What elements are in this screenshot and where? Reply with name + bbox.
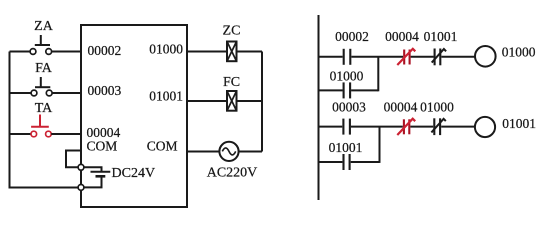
svg-text:ZC: ZC bbox=[223, 24, 241, 39]
svg-text:ZA: ZA bbox=[34, 19, 54, 34]
label 01001 (rung 1) bbox=[424, 29, 458, 44]
svg-text:01000: 01000 bbox=[502, 45, 536, 60]
label 01001 (PLC output) bbox=[149, 89, 183, 104]
pushbutton ZA bbox=[10, 19, 82, 54]
label 00002 (PLC input) bbox=[88, 43, 122, 58]
NO contact 01000 (branch 1) bbox=[344, 82, 351, 98]
branch 2 wire bbox=[319, 127, 380, 163]
svg-text:FC: FC bbox=[223, 75, 240, 90]
label COM (PLC input) bbox=[87, 138, 118, 153]
svg-text:01001: 01001 bbox=[424, 29, 458, 44]
wire FC to bus bbox=[237, 100, 263, 102]
svg-text:COM: COM bbox=[87, 138, 118, 153]
left rail wire bbox=[10, 52, 80, 188]
svg-text:01001: 01001 bbox=[149, 89, 183, 104]
NO contact 00003 bbox=[343, 119, 350, 135]
right bus wire bbox=[261, 52, 263, 152]
svg-text:00004: 00004 bbox=[385, 29, 419, 44]
svg-text:COM: COM bbox=[147, 138, 178, 153]
terminal node 2 bbox=[78, 185, 84, 191]
rung 2 wire bbox=[319, 126, 476, 128]
label 01000 (PLC output) bbox=[149, 42, 183, 57]
label 01001 (branch 2) bbox=[329, 140, 363, 155]
svg-text:00003: 00003 bbox=[332, 100, 366, 115]
wire ZC to bus bbox=[237, 51, 263, 53]
NC contact 00004 (rung 1, red) bbox=[397, 49, 415, 65]
NO contact 00002 bbox=[344, 49, 351, 65]
rung 1 wire bbox=[319, 56, 476, 58]
solenoid FC bbox=[223, 75, 240, 111]
label 01000 (rung 2) bbox=[420, 100, 454, 115]
solenoid ZC bbox=[223, 24, 241, 62]
coil 01000 bbox=[475, 45, 536, 67]
branch 1 wire bbox=[319, 57, 379, 92]
ladder left power rail bbox=[318, 15, 320, 200]
wire output 01001 bbox=[187, 100, 227, 102]
label COM (PLC output) bbox=[147, 138, 178, 153]
pushbutton TA (red) bbox=[10, 101, 82, 137]
label 00003 (PLC input) bbox=[88, 83, 122, 98]
svg-text:TA: TA bbox=[35, 101, 53, 116]
svg-text:00004: 00004 bbox=[384, 100, 418, 115]
coil 01001 bbox=[475, 116, 536, 137]
pushbutton FA bbox=[10, 61, 82, 96]
svg-text:00003: 00003 bbox=[88, 83, 122, 98]
AC source AC220V bbox=[207, 142, 258, 181]
svg-text:FA: FA bbox=[35, 61, 53, 76]
svg-text:01001: 01001 bbox=[329, 140, 363, 155]
battery DC24V bbox=[84, 166, 155, 187]
terminal node 1 bbox=[78, 164, 84, 170]
svg-text:AC220V: AC220V bbox=[207, 166, 258, 181]
NO contact 01001 (branch 2) bbox=[344, 154, 350, 170]
wire output 01000 bbox=[187, 51, 227, 53]
NC contact 00004 (rung 2, red) bbox=[397, 119, 415, 135]
NC contact 01000 (rung 2) bbox=[431, 118, 445, 135]
label 01000 (branch 1) bbox=[330, 69, 364, 84]
svg-text:DC24V: DC24V bbox=[112, 166, 156, 181]
wire COM to AC source bbox=[187, 151, 220, 153]
label 00003 (rung 2) bbox=[332, 100, 366, 115]
label 00004 (PLC input) bbox=[87, 125, 121, 140]
svg-text:01000: 01000 bbox=[420, 100, 454, 115]
COM loop wire bbox=[66, 151, 81, 168]
label 00004 (rung 1) bbox=[385, 29, 419, 44]
svg-text:01001: 01001 bbox=[502, 116, 536, 131]
svg-text:01000: 01000 bbox=[330, 69, 364, 84]
PLC box bbox=[81, 25, 187, 207]
svg-text:00002: 00002 bbox=[88, 43, 122, 58]
svg-text:01000: 01000 bbox=[149, 42, 183, 57]
NC contact 01001 (rung 1) bbox=[432, 49, 446, 66]
wire AC source to bus bbox=[239, 151, 262, 153]
label 00002 (rung 1) bbox=[335, 29, 369, 44]
svg-text:00002: 00002 bbox=[335, 29, 369, 44]
label 00004 (rung 2) bbox=[384, 100, 418, 115]
